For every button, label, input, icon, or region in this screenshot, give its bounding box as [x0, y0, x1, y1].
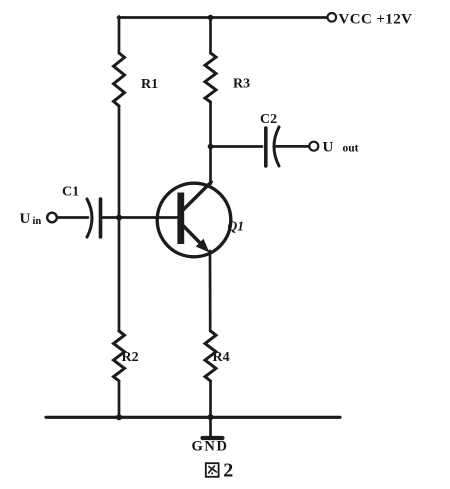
node collector junction — [208, 144, 214, 150]
resistor R1 — [114, 53, 125, 106]
wire right branch top segment — [209, 17, 212, 54]
wire top supply rail — [118, 16, 328, 19]
VCC terminal circle — [328, 13, 337, 22]
capacitor C1 — [87, 199, 101, 237]
svg-text:out: out — [343, 143, 359, 155]
wire R4 to ground rail — [209, 381, 212, 418]
svg-text:U: U — [323, 140, 334, 156]
svg-text:C1: C1 — [62, 185, 79, 200]
wire left branch lower segment — [118, 218, 121, 332]
wire C2 to output terminal — [277, 145, 310, 148]
node base junction — [116, 215, 122, 221]
svg-text:R4: R4 — [213, 350, 230, 365]
wire R2 to ground rail — [118, 381, 121, 418]
transistor Q1 — [157, 182, 231, 257]
wire collector segment — [209, 102, 212, 184]
svg-text:R2: R2 — [122, 350, 139, 365]
caption: 图 2 — [206, 463, 219, 477]
svg-text:VCC +12V: VCC +12V — [339, 12, 413, 28]
resistor R4 — [205, 331, 216, 381]
resistor R3 — [205, 53, 216, 102]
resistor R2 — [114, 331, 125, 381]
svg-text:Q1: Q1 — [228, 219, 245, 234]
wire ground rail — [46, 416, 340, 419]
node R2 ground junction — [116, 414, 122, 420]
wire emitter segment — [209, 251, 212, 331]
capacitor C2 — [266, 127, 279, 166]
svg-text:GND: GND — [192, 439, 229, 455]
wire input terminal to C1 — [58, 216, 89, 219]
U out terminal circle — [309, 142, 318, 151]
ground — [203, 418, 223, 439]
svg-text:R1: R1 — [141, 77, 158, 92]
wire collector to C2 — [211, 145, 263, 148]
Uin terminal circle — [47, 213, 57, 223]
wire C1 to base — [103, 216, 179, 219]
svg-text:in: in — [33, 216, 42, 227]
wire left branch top segment — [118, 17, 121, 54]
node top junction of R3 branch — [208, 15, 214, 21]
wire left branch middle segment — [118, 106, 121, 218]
svg-text:R3: R3 — [233, 77, 250, 92]
node R4 ground junction — [208, 414, 214, 420]
svg-text:C2: C2 — [260, 112, 277, 127]
svg-text:2: 2 — [223, 459, 233, 481]
svg-text:U: U — [20, 211, 31, 227]
